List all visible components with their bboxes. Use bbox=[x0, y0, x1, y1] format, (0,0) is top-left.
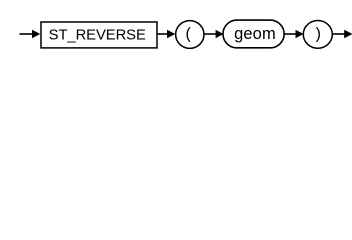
svg-text:ST_REVERSE: ST_REVERSE bbox=[49, 27, 146, 43]
svg-text:(: ( bbox=[186, 26, 192, 43]
svg-text:geom: geom bbox=[234, 25, 276, 43]
wire entry rail bbox=[20, 33, 33, 35]
arrowhead into stadium bbox=[216, 30, 224, 38]
wire exit rail bbox=[332, 33, 345, 35]
exit arrowhead bbox=[344, 30, 352, 38]
arrowhead into circle2 bbox=[296, 30, 304, 38]
wire box to circle1 bbox=[157, 33, 168, 35]
box ST_REVERSE bbox=[41, 22, 157, 48]
svg-text:): ) bbox=[316, 26, 321, 43]
arrowhead into circle1 bbox=[167, 30, 175, 38]
stadium geom bbox=[223, 20, 284, 48]
wire circle1 to stadium bbox=[204, 33, 217, 35]
circle1 open paren bbox=[176, 21, 204, 49]
wire stadium to circle2 bbox=[284, 33, 296, 35]
circle2 close paren bbox=[303, 21, 332, 49]
entry arrowhead bbox=[32, 30, 40, 38]
